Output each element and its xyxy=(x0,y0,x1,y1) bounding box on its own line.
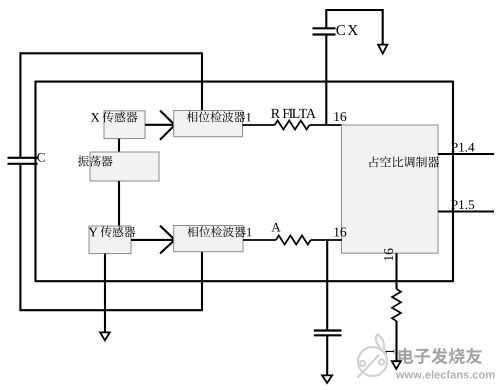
wire CX right drop xyxy=(382,9,384,45)
label pin 16 left xyxy=(334,227,346,236)
label A xyxy=(271,223,280,232)
block phase detector 2 xyxy=(174,226,243,252)
block X sensor xyxy=(104,111,145,139)
label P1.5 xyxy=(451,200,474,209)
label 振荡器 xyxy=(78,156,113,167)
wire duty box pin 16 bottom xyxy=(395,253,397,289)
ground arrow bottom middle xyxy=(322,375,332,383)
label 相位检波器1 xyxy=(187,111,251,122)
wire phase detector 1 top feed xyxy=(201,52,203,111)
wire inner rect top xyxy=(36,81,454,83)
wire oscillator to Y sensor xyxy=(118,181,120,226)
wire inner rect right xyxy=(452,81,454,282)
wire Y sensor to arrow xyxy=(131,239,174,241)
wire node A down xyxy=(326,240,328,331)
arrow into phase detector 2 xyxy=(160,226,175,254)
label pin 16 top xyxy=(334,112,346,121)
capacitor C xyxy=(8,158,38,164)
wire phase det 2 to resistor A xyxy=(243,239,276,241)
wire resistor RFILTA to pin 16 xyxy=(310,124,343,126)
wire inner rect bottom xyxy=(36,280,454,282)
label CX xyxy=(336,25,357,35)
arrow into phase detector 1 xyxy=(160,111,175,140)
label pin 1 rotated xyxy=(385,349,394,354)
wire CX left drop xyxy=(325,9,327,28)
label R FILTA xyxy=(271,109,316,118)
block phase detector 1 xyxy=(174,111,243,137)
label P1.4 xyxy=(451,143,474,152)
wire outer top rail xyxy=(20,52,202,54)
label 相位检波器1 second xyxy=(187,226,251,237)
wire resistor R to ground xyxy=(395,321,397,362)
wire inner rect left xyxy=(34,81,36,282)
wire phase det 1 to resistor RFILTA xyxy=(243,124,275,126)
wire resistor A to pin 16 xyxy=(311,239,342,241)
wire phase detector 2 bottom feed xyxy=(201,251,203,311)
wire cap C2 to ground xyxy=(326,335,328,375)
label Y 传感器 xyxy=(89,226,136,237)
ground arrow bottom right xyxy=(392,361,401,369)
ground arrow under Y sensor xyxy=(100,332,110,340)
label X 传感器 xyxy=(91,112,138,123)
block duty cycle modulator U1 xyxy=(342,125,439,253)
ground arrow top right xyxy=(378,45,387,54)
wire outer bottom rail xyxy=(20,309,203,311)
watermark logo xyxy=(358,335,388,378)
wire CX to node 16 xyxy=(325,35,327,126)
wire CX top xyxy=(326,9,382,11)
label C xyxy=(37,153,44,162)
block Y sensor xyxy=(89,226,131,254)
wire P1.4 xyxy=(438,153,494,155)
watermark text 电子发烧友 xyxy=(398,348,481,364)
capacitor C2 bottom xyxy=(314,331,342,336)
resistor RFILTA xyxy=(275,121,310,130)
wire X sensor to arrow xyxy=(145,124,174,126)
wire X sensor to oscillator xyxy=(118,139,120,152)
label pin 16 bottom rotated xyxy=(384,248,393,260)
capacitor CX xyxy=(313,28,336,34)
block oscillator xyxy=(90,152,159,181)
resistor A xyxy=(276,236,311,245)
wire Y sensor to ground xyxy=(104,254,106,333)
wire outer left upper xyxy=(19,52,21,157)
resistor R bottom xyxy=(392,289,401,321)
wire outer left lower xyxy=(19,165,21,311)
watermark url www.elecfans.com xyxy=(396,370,495,378)
wire P1.5 xyxy=(438,210,494,212)
label 占空比调制器 xyxy=(370,156,440,167)
